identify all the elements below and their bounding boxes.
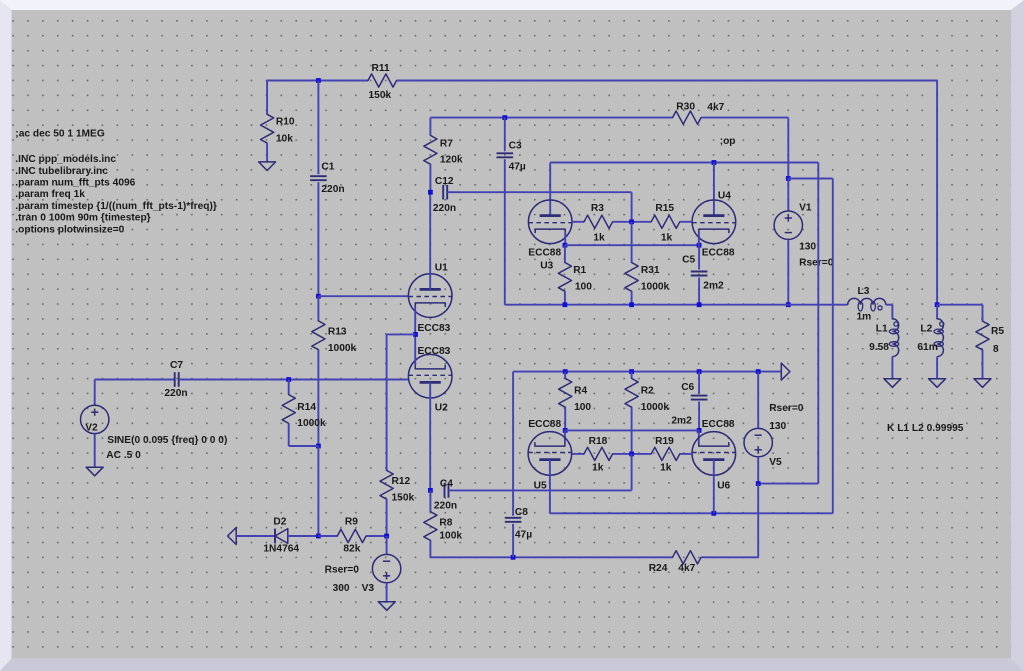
wire R13 bottom lead <box>317 350 319 446</box>
svg-text:U4: U4 <box>718 190 731 201</box>
wire R8 top lead <box>429 490 431 511</box>
wire B bottom to V5 <box>758 483 818 485</box>
resistor R1 <box>558 263 571 292</box>
svg-text:1000k: 1000k <box>328 343 357 354</box>
wire R4 bottom lead <box>564 407 566 430</box>
wire R12 top lead <box>386 334 388 470</box>
svg-text:130: 130 <box>769 421 786 432</box>
junction node U6 cathode C6 <box>697 428 702 433</box>
wire U2 plate lead <box>429 382 431 490</box>
svg-text:.tran 0 100m 90m {timestep}: .tran 0 100m 90m {timestep} <box>15 213 150 224</box>
wire R31 top lead <box>631 222 633 263</box>
voltage source V5 <box>744 428 772 456</box>
svg-text:2m2: 2m2 <box>671 415 692 426</box>
svg-text:9.58: 9.58 <box>869 342 889 353</box>
svg-text:R31: R31 <box>641 265 660 276</box>
svg-text:R3: R3 <box>591 203 604 214</box>
wire C1 top lead <box>317 81 319 175</box>
svg-text:C7: C7 <box>170 360 183 371</box>
ground below L1 <box>884 379 901 388</box>
resistor R4 <box>559 378 572 407</box>
resistor R9 <box>337 529 366 542</box>
triode U6 <box>692 432 736 476</box>
resistor R18 <box>584 447 613 460</box>
wire R3 to node <box>613 221 652 223</box>
capacitor C3 <box>497 152 514 154</box>
svg-text:R5: R5 <box>991 326 1004 337</box>
svg-text:100: 100 <box>574 402 591 413</box>
svg-text:U2: U2 <box>435 403 448 414</box>
wire C3 bottom long drop <box>504 159 506 304</box>
wire cathode rail lower stage <box>513 371 781 373</box>
junction node U5 cathode R4 <box>563 428 568 433</box>
wire input to C7 <box>95 379 175 381</box>
wire R9 to V3 node <box>366 535 387 537</box>
svg-text:R18: R18 <box>589 436 608 447</box>
svg-text:R4: R4 <box>574 386 587 397</box>
svg-text:C8: C8 <box>515 507 528 518</box>
wire U3 plate lead <box>549 163 551 216</box>
svg-text:ECC88: ECC88 <box>702 419 735 430</box>
junction node U4 cathode C5 <box>697 243 702 248</box>
wire R5 bottom lead <box>982 350 984 379</box>
svg-text:100: 100 <box>575 282 592 293</box>
svg-text:1k: 1k <box>661 232 673 243</box>
svg-text:47µ: 47µ <box>515 529 532 540</box>
wire C7 to U2 grid <box>179 379 409 381</box>
wire R4 top lead <box>564 372 566 379</box>
wire V1 column upper <box>787 118 789 179</box>
wire R18 to node <box>613 453 652 455</box>
svg-text:.INC ppp_models.inc: .INC ppp_models.inc <box>15 154 116 165</box>
svg-text:D2: D2 <box>273 516 286 527</box>
wire R8 bottom lead <box>429 540 431 557</box>
junction node R2 top <box>629 369 634 374</box>
resistor R11 <box>368 74 397 87</box>
svg-text:R7: R7 <box>440 138 453 149</box>
wire bias riser to diode row <box>317 446 319 536</box>
wire V5 bottom lead <box>757 457 759 484</box>
wire V3 top lead <box>386 536 388 554</box>
junction node D2 R9 bias <box>316 534 321 539</box>
wire output plate row <box>550 512 833 514</box>
svg-text:ECC88: ECC88 <box>702 248 735 259</box>
svg-text:SINE(0 0.095 {freq} 0 0 0): SINE(0 0.095 {freq} 0 0 0) <box>107 435 227 446</box>
wire C6 top lead <box>698 372 700 394</box>
svg-text:ECC88: ECC88 <box>528 248 561 259</box>
svg-text:R2: R2 <box>641 386 654 397</box>
resistor R12 <box>380 470 393 499</box>
wire R12 bottom lead <box>386 499 388 536</box>
triode U5 <box>528 432 572 476</box>
capacitor C6 <box>691 395 708 397</box>
svg-text:U1: U1 <box>435 262 448 273</box>
resistor R24 <box>673 551 702 564</box>
svg-text:R19: R19 <box>655 436 674 447</box>
wire L1 bottom lead <box>891 357 893 379</box>
wire V2 bottom lead <box>94 434 96 468</box>
wire U1 U2 cathode link <box>414 306 416 365</box>
svg-text:;ac dec 50 1 1MEG: ;ac dec 50 1 1MEG <box>15 128 105 139</box>
svg-text:C5: C5 <box>682 255 695 266</box>
capacitor C1 <box>310 175 327 177</box>
resistor R5 <box>976 321 989 350</box>
svg-text:Rser=0: Rser=0 <box>799 258 834 269</box>
svg-text:82k: 82k <box>343 544 360 555</box>
svg-text:R15: R15 <box>655 203 674 214</box>
svg-text:V3: V3 <box>362 583 375 594</box>
junction node U3 cathode R1 <box>563 243 568 248</box>
svg-text:ECC83: ECC83 <box>418 346 451 357</box>
wire V5 top lead <box>757 372 759 429</box>
svg-text:Rser=0: Rser=0 <box>769 403 804 414</box>
svg-text:61m: 61m <box>917 342 937 353</box>
svg-text:R14: R14 <box>297 402 316 413</box>
wire ground to D2 cathode <box>236 535 275 537</box>
ground below V2 <box>86 467 103 476</box>
svg-text:R24: R24 <box>649 563 668 574</box>
wire transformer feed rail <box>505 304 848 306</box>
svg-text:V5: V5 <box>769 457 782 468</box>
svg-text:R13: R13 <box>328 327 347 338</box>
wire C3 top lead <box>504 118 506 152</box>
wire U1 plate lead <box>429 192 431 289</box>
svg-text:120k: 120k <box>440 154 463 165</box>
svg-text:U3: U3 <box>540 261 553 272</box>
inductor L1 <box>892 319 898 357</box>
resistor R14 <box>282 395 295 424</box>
wire C5 bottom lead <box>698 278 700 305</box>
wire R5 top lead <box>982 305 984 321</box>
wire U4 plate lead <box>713 163 715 216</box>
resistor R2 <box>625 378 638 407</box>
inductor L3 <box>848 298 886 304</box>
inductor L2 <box>937 319 943 357</box>
wire D2 anode to node <box>288 535 319 537</box>
resistor R7 <box>424 135 437 164</box>
wire C6 bottom lead <box>698 402 700 431</box>
junction node R14 top <box>286 377 291 382</box>
resistor R3 <box>584 215 613 228</box>
svg-text:AC .5 0: AC .5 0 <box>106 450 141 461</box>
voltage source V3 <box>372 554 400 582</box>
junction node cathodes U1 U2 <box>413 332 418 337</box>
wire V1 bottom lead <box>787 239 789 304</box>
voltage source V2 <box>81 405 109 433</box>
junction node U4 plate <box>712 160 717 165</box>
ground arrow right of V5 rail <box>781 363 790 380</box>
resistor R19 <box>651 447 680 460</box>
svg-text:1000k: 1000k <box>641 282 670 293</box>
svg-text:220n: 220n <box>433 203 456 214</box>
wire U3 grid stub <box>572 221 584 223</box>
svg-text:K L1 L2 0.99995: K L1 L2 0.99995 <box>887 423 964 434</box>
triode U3 <box>528 200 572 244</box>
wire C1 bottom lead <box>317 182 319 296</box>
svg-text:1N4764: 1N4764 <box>263 544 299 555</box>
svg-text:C6: C6 <box>681 382 694 393</box>
resistor R10 <box>261 114 274 143</box>
wire C12 to driver grids <box>447 191 631 193</box>
svg-text:Rser=0: Rser=0 <box>325 565 360 576</box>
wire U6 plate lead <box>713 460 715 514</box>
wire L3 to L1 corner <box>886 304 893 306</box>
resistor R31 <box>625 263 638 292</box>
wire L2 to R5 <box>937 304 982 306</box>
svg-text:1k: 1k <box>660 463 672 474</box>
wire V1 top lead <box>787 179 789 212</box>
junction node C1 top rail <box>316 78 321 83</box>
wire C4 riser up <box>631 454 633 491</box>
triode U2 <box>408 354 452 398</box>
junction node V1 minus rail <box>786 302 791 307</box>
wire R7 top lead <box>429 118 431 136</box>
wire R24 to V5 riser <box>701 556 758 558</box>
junction node C3 top <box>502 115 507 120</box>
svg-text:L3: L3 <box>858 286 870 297</box>
wire V2 top lead <box>94 380 96 406</box>
wire R14 top lead <box>288 380 290 395</box>
svg-text:.INC tubelibrary.inc: .INC tubelibrary.inc <box>15 166 108 177</box>
svg-text:1k: 1k <box>592 463 604 474</box>
wire V5 bottom to R24 riser <box>757 484 759 558</box>
junction node R3 R15 <box>629 219 634 224</box>
triode U4 <box>692 200 736 244</box>
svg-text:220n: 220n <box>321 184 344 195</box>
svg-text:;op: ;op <box>720 136 736 147</box>
wire C4 to grid node riser <box>449 489 632 491</box>
wire cathode row upper pair <box>565 244 699 246</box>
junction node C6 top <box>697 369 702 374</box>
capacitor C4 <box>444 483 446 498</box>
wire C5 top lead <box>698 245 700 269</box>
wire U3 cathode pin <box>564 233 566 246</box>
wire R10 bottom lead <box>266 143 268 162</box>
wire U1 grid connection <box>318 295 408 297</box>
svg-text:220n: 220n <box>164 388 187 399</box>
svg-text:V1: V1 <box>799 202 812 213</box>
svg-text:L2: L2 <box>920 324 932 335</box>
wire L2 bottom lead <box>936 357 938 379</box>
wire B+ rail upper <box>430 117 672 119</box>
triode U1 <box>408 274 452 318</box>
wire bottom row to R24 <box>430 556 672 558</box>
wire R14 bottom lead <box>288 423 290 446</box>
wire plate rail U3 U4 <box>550 162 818 164</box>
svg-text:C4: C4 <box>440 478 453 489</box>
resistor R15 <box>651 215 680 228</box>
svg-text:R10: R10 <box>276 116 295 127</box>
junction node U6 plate <box>711 511 716 516</box>
wire U5 cathode pin <box>564 430 566 442</box>
junction node V5 bottom <box>756 481 761 486</box>
svg-text:.options plotwinsize=0: .options plotwinsize=0 <box>15 224 124 235</box>
wire cathode row lower pair <box>565 429 699 431</box>
svg-text:2m2: 2m2 <box>703 280 724 291</box>
wire feedback drop to L2 <box>936 81 938 305</box>
svg-text:8: 8 <box>993 344 999 355</box>
junction node U1 grid <box>316 294 321 299</box>
svg-text:C3: C3 <box>509 140 522 151</box>
wire R10 top lead <box>266 81 268 115</box>
svg-text:220n: 220n <box>434 501 457 512</box>
svg-text:U6: U6 <box>717 481 730 492</box>
voltage source V1 <box>774 211 802 239</box>
wire L2 top lead <box>936 305 938 319</box>
svg-text:C1: C1 <box>321 161 334 172</box>
wire R19 to U6 grid <box>680 453 692 455</box>
svg-text:150k: 150k <box>392 493 415 504</box>
junction node R4 top <box>563 369 568 374</box>
wire U5 plate lead <box>549 460 551 514</box>
wire R15 to U4 grid <box>680 221 692 223</box>
wire R31 bottom lead <box>631 291 633 304</box>
wire C8 top riser <box>512 372 514 516</box>
wire R2 top lead <box>631 372 633 379</box>
svg-text:V2: V2 <box>85 422 98 433</box>
svg-text:R1: R1 <box>573 265 586 276</box>
junction node V5 top <box>756 369 761 374</box>
capacitor C8 <box>505 517 522 519</box>
svg-text:1000k: 1000k <box>297 418 326 429</box>
wire R7 bottom lead <box>429 164 431 192</box>
ground below V3 <box>378 602 395 611</box>
wire cathode to R12 corner <box>387 333 416 335</box>
junction node U2 plate C4 R8 <box>428 488 433 493</box>
wire L1 top lead <box>891 305 893 319</box>
capacitor C5 <box>691 271 708 273</box>
svg-text:R30: R30 <box>676 102 695 113</box>
junction node C12 U1 plate <box>428 190 433 195</box>
wire U6 cathode pin <box>698 430 700 442</box>
svg-text:.param freq 1k: .param freq 1k <box>15 189 85 200</box>
svg-text:47µ: 47µ <box>509 161 526 172</box>
ground below R5 <box>974 379 991 388</box>
resistor R30 <box>673 111 702 124</box>
wire R1 bottom lead <box>564 291 566 304</box>
diode D2 <box>274 529 276 544</box>
junction node V1 top <box>786 176 791 181</box>
svg-text:R9: R9 <box>345 516 358 527</box>
svg-text:1k: 1k <box>593 232 605 243</box>
junction node C8 bottom <box>511 555 516 560</box>
wire R30 to V1 column <box>701 117 788 119</box>
wire R13 top lead <box>317 296 319 321</box>
junction node R9 R12 V3 <box>384 534 389 539</box>
svg-text:C12: C12 <box>435 176 454 187</box>
svg-text:.param timestep {1/((num_fft_p: .param timestep {1/((num_fft_pts-1)*freq… <box>15 201 217 212</box>
wire R14 bottom to node <box>289 445 319 447</box>
svg-text:150k: 150k <box>369 90 392 101</box>
svg-text:130: 130 <box>799 242 816 253</box>
svg-text:4k7: 4k7 <box>678 563 695 574</box>
svg-text:10k: 10k <box>276 134 293 145</box>
junction node C5 bottom <box>697 302 702 307</box>
junction node R1 bottom <box>563 302 568 307</box>
svg-text:.param num_fft_pts 4096: .param num_fft_pts 4096 <box>15 178 135 189</box>
capacitor C7 <box>174 372 176 387</box>
svg-text:100k: 100k <box>439 531 462 542</box>
svg-text:ECC83: ECC83 <box>418 323 451 334</box>
capacitor C12 <box>442 185 444 200</box>
wire top rail left segment <box>267 80 368 82</box>
svg-text:4k7: 4k7 <box>707 102 724 113</box>
svg-text:L1: L1 <box>876 324 888 335</box>
wire U5 grid stub <box>572 453 584 455</box>
ground below L2 <box>929 379 946 388</box>
junction node R18 R19 C4 <box>629 452 634 457</box>
svg-text:R12: R12 <box>392 476 411 487</box>
wire V1 top to wire C <box>788 178 833 180</box>
svg-text:1000k: 1000k <box>641 402 670 413</box>
wire R2 bottom lead <box>631 407 633 454</box>
junction node R31 bottom <box>629 302 634 307</box>
wire V3 bottom lead <box>386 583 388 602</box>
svg-text:1m: 1m <box>857 311 872 322</box>
wire C8 bottom lead <box>512 524 514 558</box>
svg-text:300: 300 <box>333 583 350 594</box>
ground below R10 <box>259 162 276 171</box>
junction node L2 top <box>935 302 940 307</box>
wire R1 top lead <box>564 245 566 262</box>
wire C drop to output plate row <box>832 179 834 514</box>
svg-text:ECC88: ECC88 <box>528 419 561 430</box>
svg-text:R8: R8 <box>439 517 452 528</box>
wire top rail right segment <box>397 80 938 82</box>
resistor R8 <box>424 512 437 541</box>
junction node R13 R14 bottom <box>316 444 321 449</box>
wire U4 cathode pin <box>698 233 700 246</box>
ground arrow left of D2 <box>228 528 237 545</box>
wire B drop from plate rail <box>817 163 819 484</box>
svg-text:R11: R11 <box>372 63 390 74</box>
wire node to R9 <box>318 535 337 537</box>
wire C12 drop to R3 R15 node <box>631 192 633 222</box>
resistor R13 <box>312 321 325 350</box>
